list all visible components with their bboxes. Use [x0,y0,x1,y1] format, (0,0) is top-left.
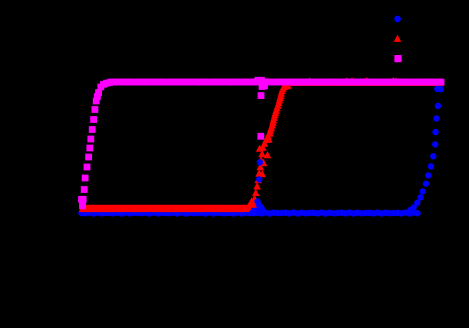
blue series: low baseline row of circles [78,209,421,216]
red sigmoid scatter doubles [252,129,274,204]
legend marker: magenta square [394,55,401,62]
blue outlier circles at red transition [254,159,263,205]
magenta series: left sigmoid rise [78,79,113,209]
magenta outlier squares below plateau [257,92,264,140]
magenta plateau jitter cluster near red transition [255,77,268,90]
blue series: right sigmoid rise [407,86,444,213]
blue baseline bump cluster near red transition [250,201,265,213]
legend marker: red triangle [394,35,402,42]
red series: middle sigmoid rise [245,82,292,211]
red series: low baseline row of triangles [79,205,251,213]
red series: high plateau (mostly hidden under magenta) [285,77,444,86]
legend marker: blue circle [394,16,401,23]
magenta series: top plateau band [108,79,444,86]
